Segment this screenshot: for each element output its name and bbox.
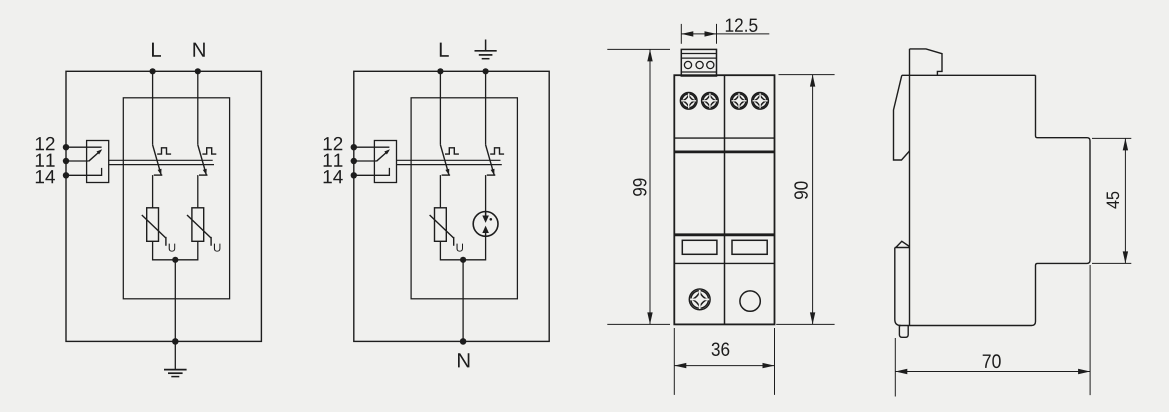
- circuit 1 label 12: [36, 137, 55, 150]
- side view lower DIN clip latch: [895, 241, 910, 325]
- circuit 1 label 14: [36, 170, 55, 183]
- circuit 2 changeover moving contact: [377, 150, 389, 161]
- circuit 1 enclosure (SPD outline): [66, 71, 261, 341]
- dimension 99 arrow top: [647, 49, 652, 61]
- circuit 2 node PE terminal: [483, 68, 489, 74]
- circuit 2 varistor RV1 diagonal: [430, 215, 454, 246]
- front view terminal block line 3: [681, 71, 716, 73]
- circuit 1 node terminal 14: [63, 172, 69, 178]
- circuit 1 thermal trip symbol (N branch): [202, 148, 216, 154]
- dimension 70 arrow right: [1078, 369, 1090, 374]
- circuit 1 disconnector fixed contact (N branch): [199, 174, 208, 176]
- circuit 1 wire L branch to varistor: [152, 175, 154, 208]
- dimension 70 extension line right: [1089, 265, 1091, 395]
- dimension 90 line: [812, 75, 814, 325]
- side view upper DIN clip: [894, 75, 910, 160]
- circuit 1 changeover moving contact: [89, 150, 101, 161]
- dimension 99 arrow bottom: [647, 312, 652, 324]
- circuit 1 node enclosure bottom: [172, 338, 179, 345]
- side view body left edge: [909, 49, 911, 326]
- circuit 2 thermal trip symbol (L branch): [445, 148, 459, 154]
- circuit 1 varistor RV2 label U: [214, 244, 221, 252]
- dimension 36 arrow left: [674, 363, 686, 368]
- circuit 2 linkage line upper: [397, 159, 501, 161]
- dimension 36 extension line right: [774, 328, 776, 395]
- front view terminal hole 3: [707, 61, 714, 68]
- circuit 2 label 14: [324, 170, 343, 183]
- circuit 1 wire terminal 14: [66, 168, 102, 175]
- dimension 36 arrow right: [763, 363, 775, 368]
- circuit 2 label 11: [324, 154, 343, 167]
- circuit 2 disconnector fixed contact (N branch): [487, 174, 496, 176]
- circuit 1 wire bottom bus: [153, 241, 198, 259]
- circuit 2 wire N branch to gas tube: [485, 175, 487, 216]
- circuit 1 varistor RV2 body: [192, 208, 204, 242]
- circuit 2 disconnector fixed contact (L branch): [442, 174, 451, 176]
- circuit 1 label N: [193, 43, 204, 57]
- circuit 1 wire earth down: [174, 260, 176, 342]
- circuit 2 gas tube upper electrode: [485, 212, 487, 217]
- dimension 12.5 extension line left: [680, 24, 682, 44]
- circuit 2 enclosure (SPD outline): [354, 71, 549, 341]
- circuit 2 wire terminal 14: [354, 168, 390, 175]
- dimension 70 text: [983, 354, 1001, 368]
- circuit 2 gas discharge tube circle: [473, 212, 498, 237]
- front view body outline: [674, 75, 774, 324]
- dimension 99 line: [649, 49, 651, 324]
- circuit 1 ground symbol: [164, 370, 187, 377]
- circuit 2 wire L down: [439, 71, 441, 145]
- circuit 2 disconnector blade (L branch): [440, 145, 449, 175]
- circuit 1 varistor RV1 diagonal: [142, 215, 166, 246]
- circuit 1 linkage line lower: [109, 164, 214, 166]
- front view top screw 2: [702, 93, 719, 110]
- front view module divider: [724, 75, 726, 324]
- circuit 1 disconnector fixed contact (L branch): [154, 174, 163, 176]
- circuit 2 label N bottom: [458, 353, 469, 367]
- dimension 70 arrow left: [895, 369, 907, 374]
- circuit 2 node terminal 12: [351, 144, 357, 150]
- dimension 12.5 line: [681, 33, 769, 35]
- front view bottom button circle: [740, 291, 760, 311]
- circuit 2 node terminal 11: [351, 158, 357, 164]
- circuit 1 wire terminal 11: [66, 160, 89, 162]
- circuit 2 changeover contact box: [374, 141, 396, 183]
- circuit 1 label 11: [36, 154, 55, 167]
- circuit 2 thermal trip symbol (N branch): [490, 148, 504, 154]
- dimension 12.5 text: [726, 18, 758, 32]
- dimension 36 extension line left: [673, 328, 675, 395]
- front view indicator window right: [732, 240, 767, 254]
- front view indicator window left: [682, 240, 717, 254]
- circuit 2 varistor RV1 body: [435, 208, 447, 242]
- front view terminal hole 1: [684, 61, 691, 68]
- circuit 1 wire N branch to varistor: [197, 175, 199, 208]
- circuit 2 earth symbol (top): [475, 40, 497, 59]
- circuit 1 node N terminal: [195, 68, 201, 74]
- circuit 2 node L terminal: [437, 68, 443, 74]
- dimension 90 text: [794, 181, 808, 199]
- circuit 2 gas tube lower electrode: [485, 231, 487, 236]
- dimension 90 extension line bottom: [776, 323, 834, 325]
- side view clip release tab: [899, 326, 908, 338]
- dimension 70 extension line left: [894, 338, 896, 397]
- dimension 45 line: [1124, 138, 1126, 263]
- dimension 12.5 arrow left: [681, 31, 693, 36]
- front view bottom screw: [689, 289, 710, 310]
- circuit 1 node L terminal: [150, 68, 156, 74]
- circuit 2 node terminal 14: [351, 172, 357, 178]
- circuit 1 disconnector blade (N branch): [198, 145, 207, 175]
- circuit 2 wire bottom bus: [440, 236, 485, 259]
- circuit 2 linkage line lower: [397, 164, 502, 166]
- front view terminal block line 1: [681, 53, 716, 55]
- circuit 2 wire L branch to varistor: [439, 175, 441, 208]
- dimension 99 extension line bottom: [607, 323, 670, 325]
- front view line below screws: [674, 137, 774, 139]
- circuit 1 changeover contact box: [87, 141, 109, 183]
- front view terminal block: [681, 49, 716, 76]
- dimension 36 line: [674, 365, 774, 367]
- dimension 36 text: [712, 343, 730, 357]
- circuit 1 linkage line upper: [109, 159, 213, 161]
- circuit 2 wire terminal 11: [354, 160, 377, 162]
- dimension 99 text: [633, 178, 647, 195]
- circuit 2 node enclosure bottom: [460, 338, 467, 345]
- circuit 1 wire N down: [197, 71, 199, 145]
- dimension 45 extension line bottom: [1092, 262, 1131, 264]
- front view line below windows: [674, 262, 774, 264]
- front view terminal hole 2: [696, 61, 703, 68]
- circuit 2 wire N down: [485, 71, 487, 145]
- circuit 1 node bus junction: [172, 257, 178, 263]
- circuit 1 varistor RV1 body: [147, 208, 159, 242]
- circuit 1 label L: [152, 43, 161, 57]
- circuit 2 varistor RV1 label U: [457, 244, 464, 252]
- circuit 1 wire to ground: [174, 341, 176, 369]
- dimension 45 extension line top: [1092, 137, 1131, 139]
- dimension 45 arrow top: [1123, 138, 1128, 150]
- side view body outline: [910, 49, 943, 75]
- circuit 2 gas tube dot: [490, 218, 493, 221]
- dimension 90 arrow top: [810, 75, 815, 87]
- circuit 1 varistor RV1 label U: [169, 244, 176, 252]
- circuit 2 inner module box: [411, 98, 517, 299]
- front view thick line upper: [674, 150, 774, 153]
- side view right stepped profile: [899, 75, 1090, 325]
- dimension 90 arrow bottom: [810, 312, 815, 324]
- circuit 1 wire L down: [152, 71, 154, 145]
- circuit 2 wire earth down: [462, 260, 464, 342]
- circuit 1 disconnector blade (L branch): [153, 145, 162, 175]
- circuit 2 wire terminal 12: [354, 146, 390, 148]
- circuit 1 inner module box: [123, 98, 229, 299]
- circuit 2 node bus junction: [460, 257, 466, 263]
- dimension 99 extension line top: [607, 48, 670, 50]
- dimension 12.5 extension line right: [716, 24, 718, 44]
- front view top screw 3: [731, 93, 748, 110]
- dimension 45 arrow bottom: [1123, 251, 1128, 263]
- dimension 12.5 arrow right: [705, 31, 717, 36]
- circuit 1 wire terminal 12: [66, 146, 102, 148]
- front view top screw 1: [680, 93, 697, 110]
- dimension 45 text: [1107, 192, 1120, 209]
- circuit 1 varistor RV2 diagonal: [187, 215, 211, 246]
- dimension 70 line: [895, 371, 1090, 373]
- circuit 2 label 12: [324, 137, 343, 150]
- circuit 2 disconnector blade (N branch): [486, 145, 495, 175]
- circuit 1 node terminal 11: [63, 158, 69, 164]
- front view thick line lower: [674, 233, 774, 236]
- front view top screw 4: [752, 93, 769, 110]
- circuit 1 thermal trip symbol (L branch): [157, 148, 171, 154]
- circuit 1 node terminal 12: [63, 144, 69, 150]
- front view terminal block line 2: [681, 57, 716, 59]
- circuit 2 label L: [440, 43, 449, 57]
- side view body top edge: [902, 74, 1036, 76]
- dimension 90 extension line top: [779, 74, 835, 76]
